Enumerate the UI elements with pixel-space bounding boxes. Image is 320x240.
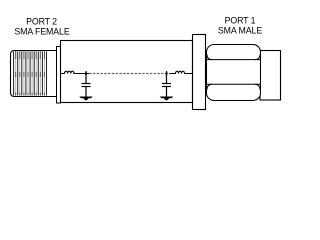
svg-text:PORT 1: PORT 1	[225, 16, 256, 26]
svg-text:PORT 2: PORT 2	[26, 17, 57, 27]
svg-text:SMA FEMALE: SMA FEMALE	[14, 26, 69, 36]
svg-text:SMA MALE: SMA MALE	[218, 26, 262, 36]
